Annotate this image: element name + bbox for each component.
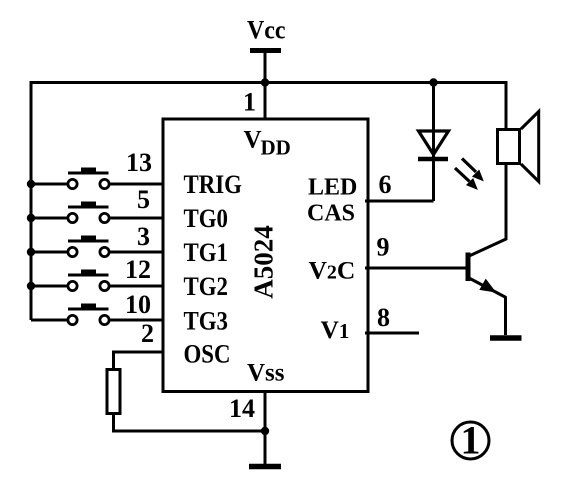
svg-text:5: 5 [137,185,150,214]
pin number 9 [377,233,390,262]
pushbutton S4 (TG2) [32,270,163,291]
pushbutton S2 (TG0) [32,202,163,223]
svg-text:OSC: OSC [184,340,231,369]
pin number 6 [379,170,392,199]
wire pin1 stub [264,82,267,119]
pin number 12 [125,255,151,284]
pin number 10 [125,290,151,319]
svg-text:TRIG: TRIG [184,171,242,200]
label VDD [244,127,291,160]
junction top rail/LED [429,78,437,86]
svg-text:10: 10 [125,290,151,319]
label V2C [309,256,356,285]
wire OSC pin2 [114,352,164,368]
svg-text:6: 6 [379,170,392,199]
svg-text:V1: V1 [321,315,350,344]
LED D1 [418,131,449,159]
pin number 8 [377,303,390,332]
speaker LS1 [498,112,539,182]
junction bus/S3 [27,248,35,256]
wire Vss stub pin14 [264,390,267,464]
pushbutton S5 (TG3) [31,304,163,325]
svg-text:TG2: TG2 [184,273,228,302]
wire pin9 to Q1 base [365,267,467,270]
wire R1 to Vss node [114,414,266,432]
label V1 [321,315,350,344]
label A5024 (rotated) [249,225,279,299]
label TG0 [184,205,228,234]
svg-text:LED: LED [308,175,357,201]
pushbutton S1 (TRIG) [32,168,163,189]
wire LED branch vertical [432,82,435,201]
figure number 1 (circled) [452,418,489,463]
label Vss [247,360,285,387]
pin number 3 [137,222,150,251]
label TRIG [184,171,242,200]
junction bus/S2 [27,214,35,222]
svg-text:3: 3 [137,222,150,251]
svg-text:12: 12 [125,255,151,284]
svg-text:1: 1 [243,88,256,117]
svg-text:2: 2 [141,319,154,348]
IC U1 A5024 body [163,119,368,392]
wire left bus vertical [30,81,33,320]
pin number 2 [141,319,154,348]
power Vcc symbol [250,51,281,83]
wire top rail to speaker [505,81,508,128]
wire speaker to Q1 collector [468,165,506,257]
svg-text:V2C: V2C [309,256,356,285]
svg-text:TG3: TG3 [184,307,228,336]
label Vcc [247,17,285,45]
transistor Q1 [468,253,506,298]
wire pin8 stub [365,332,419,335]
junction R1/Vss [261,427,269,435]
svg-text:CAS: CAS [307,201,355,227]
label OSC [184,340,231,369]
junction bus/S4 [27,282,35,290]
svg-text:A5024: A5024 [249,225,279,299]
svg-text:TG1: TG1 [184,239,228,268]
wire top Vcc rail [30,81,508,84]
pin number 14 [229,394,255,423]
label TG2 [184,273,228,302]
svg-text:1: 1 [461,418,481,463]
svg-text:8: 8 [377,303,390,332]
wire pin6 to LED [365,200,434,203]
pin number 1 [243,88,256,117]
svg-text:Vss: Vss [247,360,285,387]
svg-text:TG0: TG0 [184,205,228,234]
label TG3 [184,307,228,336]
pushbutton S3 (TG1) [32,236,163,257]
wire Q1 emitter to ground [504,297,507,336]
pin number 13 [126,148,152,177]
junction bus/S1 [27,180,35,188]
LED light arrow 1 [462,159,483,181]
ground (emitter) [490,335,522,341]
svg-text:13: 13 [126,148,152,177]
ground (Vss) [249,464,281,470]
junction node Vcc/pin1 [261,78,269,86]
pin number 5 [137,185,150,214]
svg-text:9: 9 [377,233,390,262]
svg-text:Vcc: Vcc [247,17,285,45]
svg-text:DD: DD [261,136,291,160]
label TG1 [184,239,228,268]
svg-text:14: 14 [229,394,255,423]
label CAS [307,201,355,227]
LED light arrow 2 [455,168,477,189]
label LED [308,175,357,201]
resistor R1 [107,370,120,414]
svg-text:V: V [244,127,262,154]
